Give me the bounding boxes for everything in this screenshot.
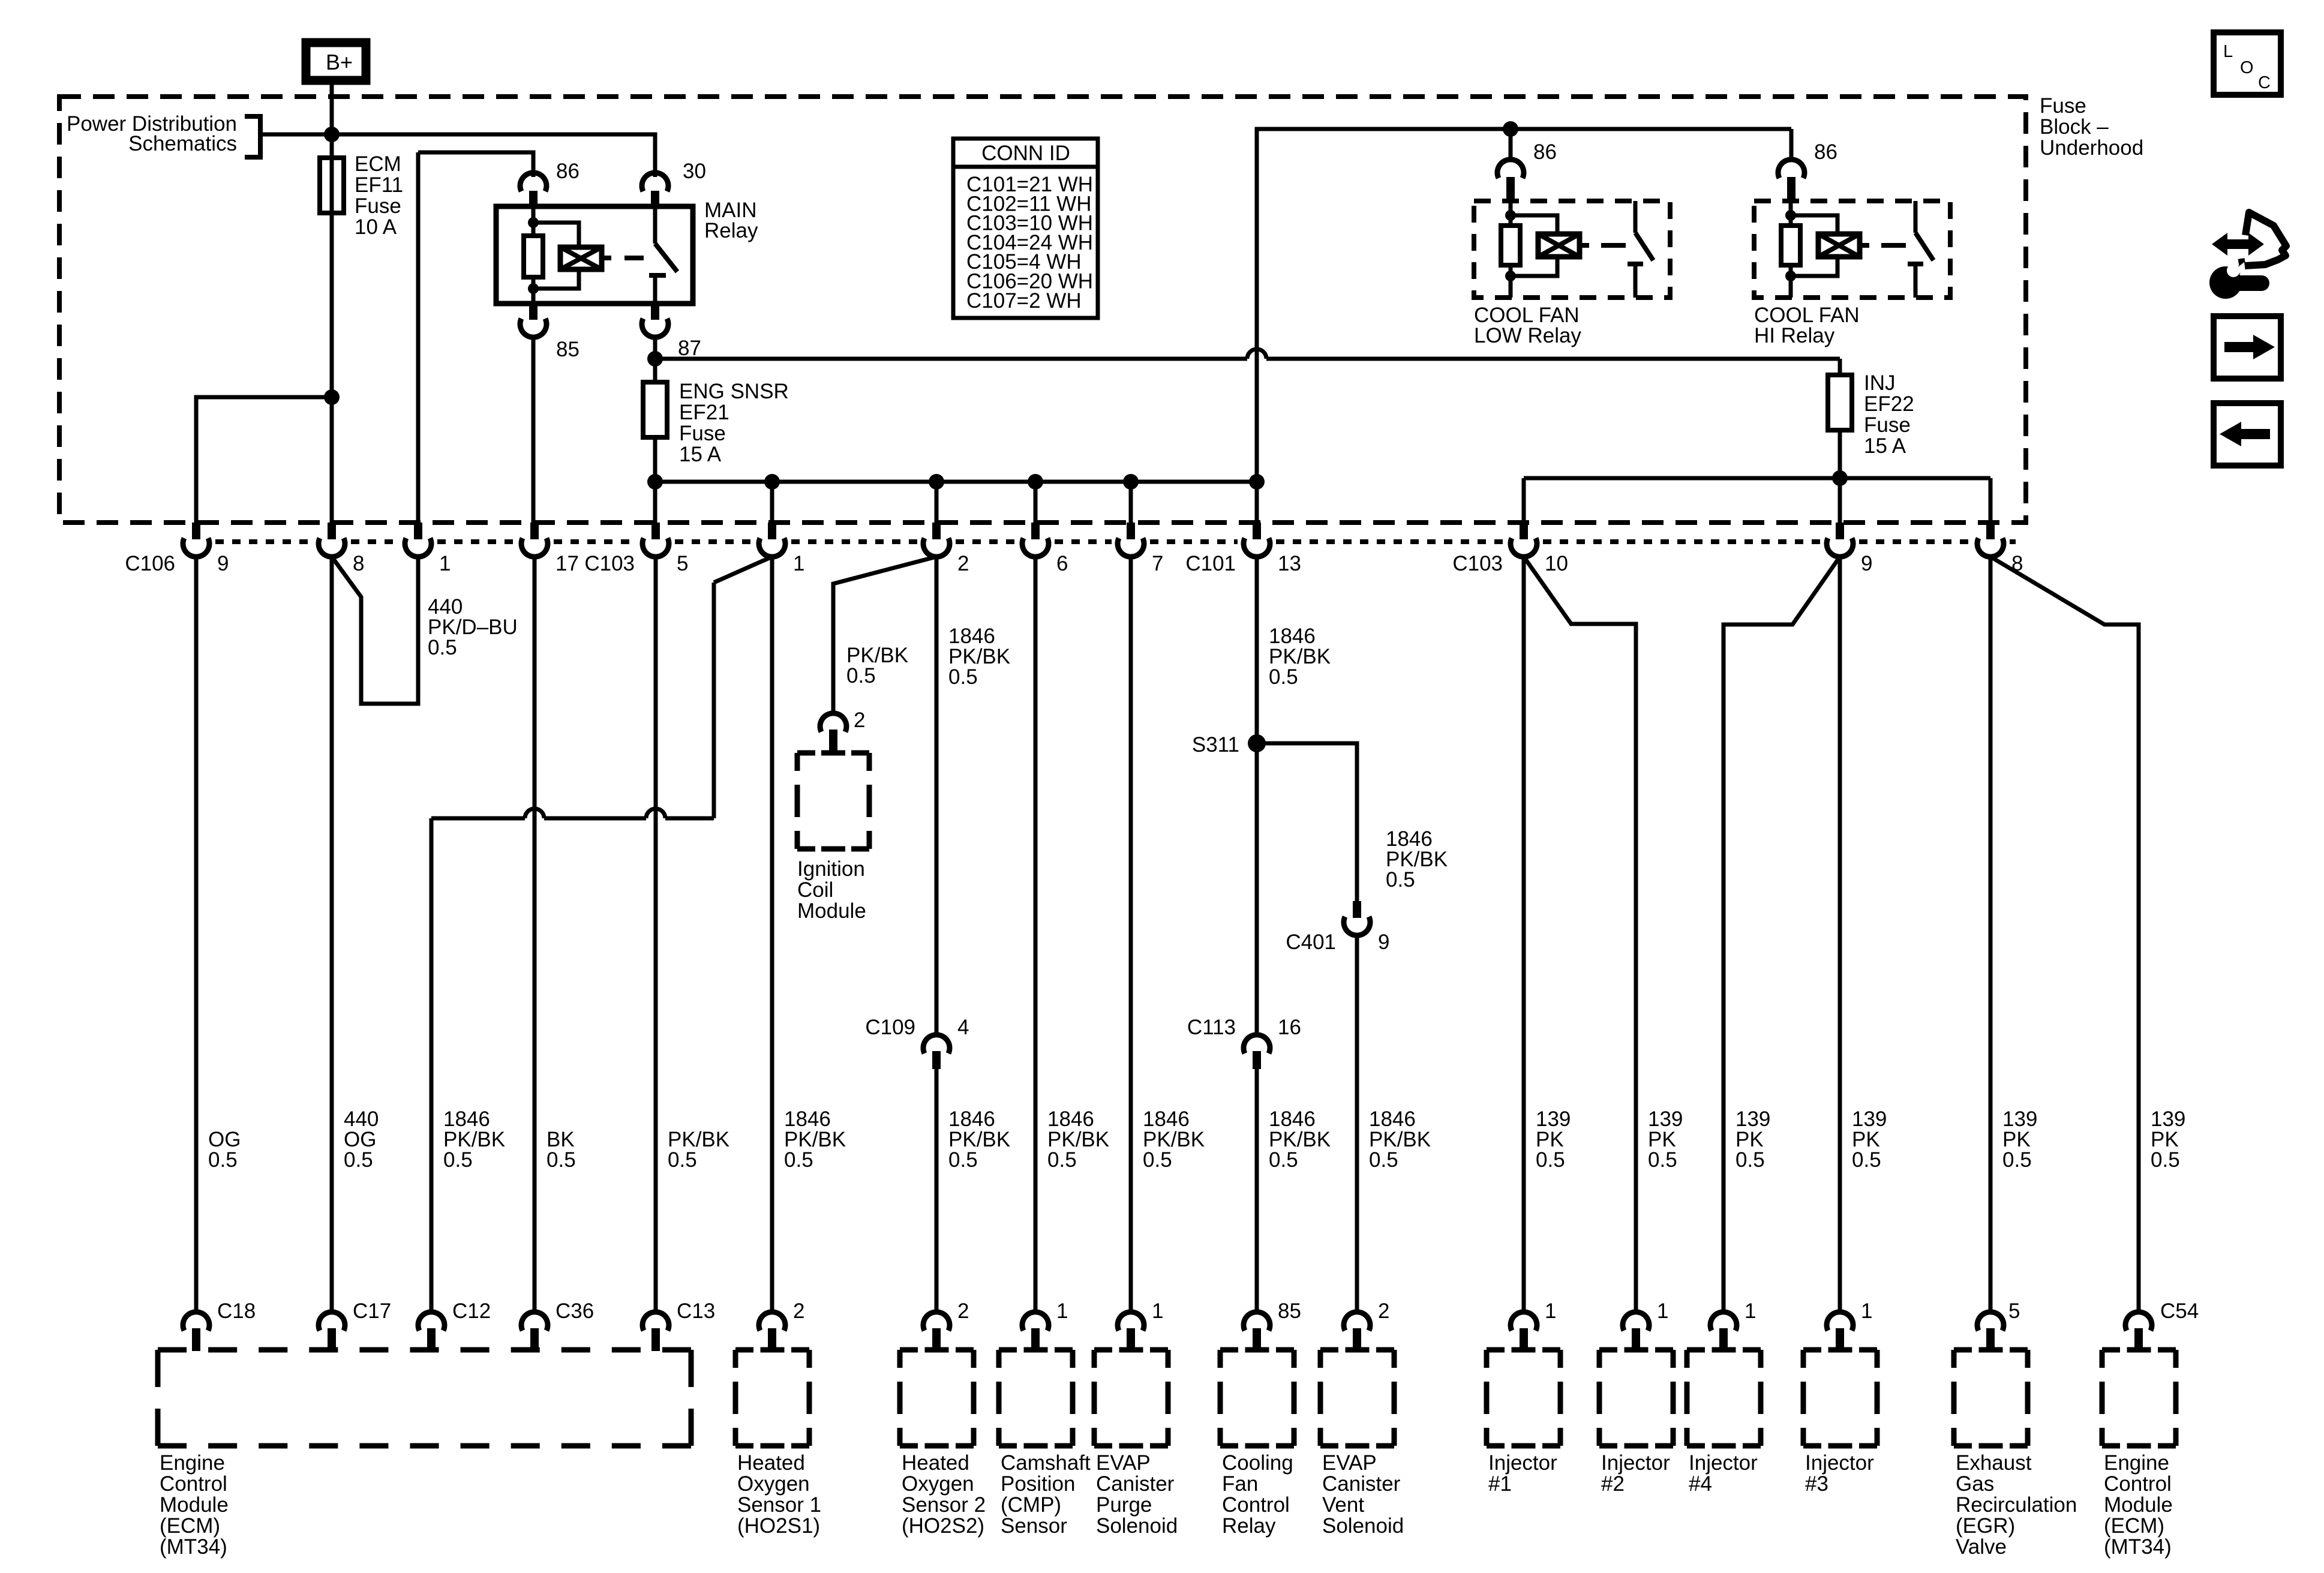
label 1846 PK/BK 0.5 (HO2S2 lower): [948, 1107, 1010, 1172]
svg-text:(ECM): (ECM): [2104, 1514, 2164, 1538]
label bottom 2: [1378, 1299, 1389, 1323]
junction injector bus: [1832, 470, 1848, 486]
label EGR valve: [1956, 1451, 2077, 1559]
label 1846 PK/BK 0.5 (fan relay): [1269, 1107, 1331, 1172]
svg-text:0.5: 0.5: [948, 665, 978, 689]
svg-text:0.5: 0.5: [1143, 1148, 1172, 1172]
svg-text:15 A: 15 A: [1864, 434, 1906, 458]
label pin 10: [1545, 552, 1568, 575]
resistor: [1781, 226, 1800, 265]
wire bus to C103-2: [935, 482, 939, 523]
label 139 PK 0.5 (inj4): [1736, 1107, 1770, 1172]
svg-text:2: 2: [957, 552, 969, 575]
svg-text:0.5: 0.5: [1269, 1148, 1298, 1172]
svg-text:0.5: 0.5: [668, 1148, 697, 1172]
svg-text:85: 85: [1278, 1299, 1301, 1323]
label bottom 1: [1861, 1299, 1872, 1323]
svg-text:0.5: 0.5: [344, 1148, 373, 1172]
icon arrow left: [2214, 403, 2281, 466]
label OG 0.5: [208, 1128, 241, 1172]
coil element: [1538, 234, 1580, 257]
table CONN ID: [953, 139, 1098, 318]
label 1846 PK/BK 0.5 (C12): [443, 1107, 505, 1172]
svg-text:ECM: ECM: [355, 152, 401, 176]
svg-text:(MT34): (MT34): [160, 1535, 227, 1559]
svg-text:CONN ID: CONN ID: [981, 142, 1070, 165]
svg-text:9: 9: [1378, 930, 1389, 954]
label fuse EF11: [355, 152, 403, 239]
connector C113 pin 16: [1244, 1035, 1270, 1069]
label pin 87: [678, 337, 701, 360]
label bottom C12: [452, 1299, 491, 1323]
wire 87 bus: [655, 349, 1840, 359]
svg-text:2: 2: [793, 1299, 804, 1323]
label BK 0.5: [547, 1128, 576, 1172]
svg-text:0.5: 0.5: [784, 1148, 813, 1172]
label fuse EF21: [679, 380, 789, 466]
label pin 86 hi: [1814, 140, 1837, 164]
svg-text:Fuse: Fuse: [679, 422, 726, 445]
label pin 86: [556, 160, 580, 183]
connector bottom 1 at x1726: [1022, 1312, 1049, 1351]
svg-text:0.5: 0.5: [1047, 1148, 1077, 1172]
svg-text:Sensor 2: Sensor 2: [902, 1493, 986, 1517]
wire B+ to bus: [330, 80, 334, 160]
module box HO2S2: [900, 1350, 974, 1446]
relay actuator dash: [624, 256, 644, 260]
svg-text:#1: #1: [1488, 1472, 1512, 1496]
svg-text:Canister: Canister: [1322, 1472, 1401, 1496]
connector bottom 1 at x1885: [1118, 1312, 1144, 1351]
label HO2S1: [737, 1451, 821, 1538]
wire sensor feed bus: [655, 480, 1257, 484]
svg-text:Recirculation: Recirculation: [1956, 1493, 2077, 1517]
wire ENG fuse to C103-5: [653, 482, 657, 523]
svg-text:2: 2: [854, 709, 865, 732]
label bottom C54: [2160, 1299, 2199, 1323]
label EVAP purge: [1096, 1451, 1178, 1538]
label bottom 1: [1744, 1299, 1756, 1323]
connector MAIN relay pin 86: [520, 173, 547, 206]
label C113: [1187, 1016, 1236, 1039]
label CMP: [1001, 1451, 1091, 1538]
svg-text:C18: C18: [217, 1299, 256, 1323]
connector MAIN relay pin 85: [520, 304, 547, 523]
connector C106-1: [405, 523, 431, 558]
wire C106-1 riser: [416, 152, 421, 523]
svg-text:C103: C103: [584, 552, 635, 575]
wire OG 0.5 (C106-9 to ECM C18): [194, 557, 199, 1313]
label 1846 PK/BK 0.5 (EVAP vent): [1369, 1107, 1431, 1172]
svg-text:#2: #2: [1601, 1472, 1625, 1496]
svg-text:C17: C17: [353, 1299, 391, 1323]
svg-text:9: 9: [1861, 552, 1872, 575]
relay MAIN: [496, 206, 693, 304]
svg-text:Control: Control: [160, 1472, 227, 1496]
svg-text:EF11: EF11: [355, 173, 403, 197]
module box Injector 3: [1803, 1350, 1877, 1446]
svg-text:Coil: Coil: [797, 878, 833, 902]
svg-text:0.5: 0.5: [2151, 1148, 2180, 1172]
svg-text:#3: #3: [1805, 1472, 1828, 1496]
svg-text:85: 85: [556, 338, 580, 361]
wire bus to C103-1: [770, 482, 774, 523]
module box EVAP vent: [1320, 1350, 1394, 1446]
label pin 6: [1056, 552, 1068, 575]
svg-text:Solenoid: Solenoid: [1096, 1514, 1178, 1538]
svg-text:Block –: Block –: [2040, 115, 2109, 139]
svg-text:Oxygen: Oxygen: [902, 1472, 974, 1496]
wire 1846 PK/BK 0.5 (C103-2 to C109): [935, 557, 939, 1035]
svg-text:C12: C12: [452, 1299, 491, 1323]
connector bottom 2 at x1287: [759, 1312, 785, 1351]
svg-text:2: 2: [957, 1299, 969, 1323]
actuator dash: [1601, 243, 1626, 248]
svg-text:(HO2S2): (HO2S2): [902, 1514, 984, 1538]
label pin 2: [957, 552, 969, 575]
svg-text:0.5: 0.5: [428, 636, 457, 659]
label 139 PK 0.5 (inj2): [1648, 1107, 1683, 1172]
wire bus to C103-6: [1034, 482, 1038, 523]
wire 1846 PK/BK 0.5 (C103-6 to CMP): [1034, 557, 1038, 1313]
label 1846 PK/BK 0.5 (EVAP purge): [1143, 1107, 1205, 1172]
label C109: [865, 1016, 915, 1039]
wire 139 PK 0.5 (C103-8 to ECM C54): [1990, 557, 2139, 1313]
module box HO2S1: [735, 1350, 809, 1446]
wire 139 PK 0.5 (C103-9 to injector 4): [1724, 557, 1840, 1313]
svg-text:Oxygen: Oxygen: [737, 1472, 810, 1496]
label pin 8: [353, 552, 364, 575]
svg-text:Fuse: Fuse: [355, 194, 401, 218]
junction sensor bus C103-6: [1028, 474, 1043, 490]
svg-text:87: 87: [678, 337, 701, 360]
label pin 85: [556, 338, 580, 361]
label C101: [1185, 552, 1236, 575]
svg-text:Injector: Injector: [1488, 1451, 1557, 1475]
svg-text:ENG SNSR: ENG SNSR: [679, 380, 789, 403]
label pin 5: [677, 552, 688, 575]
svg-text:L: L: [2223, 42, 2233, 61]
power symbol B+: [306, 43, 366, 80]
connector bottom C12 at x719: [418, 1312, 445, 1351]
relay coil element: [560, 247, 602, 269]
module box ECM right: [2102, 1350, 2176, 1446]
svg-text:LOW Relay: LOW Relay: [1474, 324, 1581, 347]
connector bottom 85 at x2095: [1244, 1312, 1270, 1351]
wire 1846 PK/BK 0.5 (C101-13 to S311): [1255, 557, 1259, 739]
wire PK/BK 0.5 (C103-5 to ECM C13): [654, 557, 658, 1313]
connector COOL FAN LOW pin 86: [1497, 129, 1524, 201]
wire C106-9 riser: [196, 397, 332, 523]
wire C106-1 to MAIN relay 86: [418, 152, 533, 173]
svg-text:Fan: Fan: [1222, 1472, 1258, 1496]
wire cool fan relay feed: [1257, 129, 1791, 482]
svg-text:0.5: 0.5: [1369, 1148, 1398, 1172]
svg-text:C36: C36: [556, 1299, 594, 1323]
svg-text:EVAP: EVAP: [1096, 1451, 1151, 1475]
icon LOC box: [2214, 32, 2281, 95]
svg-text:C54: C54: [2160, 1299, 2199, 1323]
label PK/BK 0.5 (ignition coil): [846, 644, 908, 688]
svg-text:1: 1: [1545, 1299, 1556, 1323]
wire 139 PK 0.5 (C103-9 to injector 3): [1838, 557, 1842, 1313]
svg-text:Position: Position: [1001, 1472, 1076, 1496]
label bottom 1: [1056, 1299, 1068, 1323]
actuator dash: [1881, 243, 1906, 248]
label C103b: [1452, 552, 1503, 575]
svg-text:0.5: 0.5: [1536, 1148, 1565, 1172]
module box Cooling fan relay: [1220, 1350, 1294, 1446]
svg-text:30: 30: [683, 160, 706, 183]
svg-text:C106: C106: [125, 552, 175, 575]
wire 1846 PK/BK to ECM C12: [431, 557, 772, 1313]
svg-text:1: 1: [793, 552, 804, 575]
label Cooling fan relay: [1222, 1451, 1293, 1538]
connector C103-7: [1118, 523, 1144, 558]
label 1846 PK/BK 0.5 (CMP): [1047, 1107, 1109, 1172]
connector bottom 1 at x2540: [1511, 1312, 1537, 1351]
switch: [1914, 201, 1918, 233]
svg-text:10 A: 10 A: [355, 215, 397, 239]
svg-text:Valve: Valve: [1956, 1535, 2007, 1559]
relay switch: [653, 206, 657, 244]
label 139 PK 0.5 (inj1): [1536, 1107, 1571, 1172]
svg-text:0.5: 0.5: [1386, 868, 1415, 891]
label bottom C13: [677, 1299, 715, 1323]
svg-text:2: 2: [1378, 1299, 1389, 1323]
svg-text:8: 8: [353, 552, 364, 575]
connector C103-6: [1022, 523, 1049, 558]
svg-text:Ignition: Ignition: [797, 857, 865, 881]
svg-text:Injector: Injector: [1805, 1451, 1874, 1475]
svg-text:EF21: EF21: [679, 401, 729, 424]
svg-text:86: 86: [1533, 140, 1557, 164]
svg-text:Control: Control: [2104, 1472, 2172, 1496]
label Injector 1: [1488, 1451, 1557, 1496]
junction B+ bus: [324, 127, 340, 142]
label pin 17: [556, 552, 579, 575]
wire 440 PK/D-BU jog C106-8 to C106-1: [332, 557, 418, 704]
svg-text:0.5: 0.5: [208, 1148, 238, 1172]
label Ignition Coil Module: [797, 857, 866, 923]
icon arrow right: [2214, 316, 2281, 379]
svg-text:Underhood: Underhood: [2040, 136, 2143, 160]
wire 139 PK 0.5 (C103-10 to injector 1): [1522, 557, 1526, 1313]
wire bus to C103-10: [1522, 478, 1526, 523]
svg-text:Vent: Vent: [1322, 1493, 1364, 1517]
svg-text:86: 86: [556, 160, 580, 183]
relay coil branch: [533, 223, 579, 248]
junction 87 bus: [647, 351, 663, 367]
svg-text:Sensor: Sensor: [1001, 1514, 1067, 1538]
svg-text:4: 4: [957, 1016, 969, 1039]
svg-text:16: 16: [1278, 1016, 1301, 1039]
wire 1846 PK/BK 0.5 (C103-7 to EVAP purge): [1129, 557, 1133, 1313]
svg-text:7: 7: [1152, 552, 1163, 575]
relay COOL FAN LOW: [1474, 201, 1670, 298]
label pin 9b: [1861, 552, 1872, 575]
fuse ECM EF11 10A: [320, 158, 344, 213]
svg-text:C: C: [2258, 73, 2271, 92]
connector ignition coil pin 2: [820, 713, 846, 753]
label bottom 5: [2008, 1299, 2020, 1323]
splice S311: [1248, 734, 1266, 752]
relay coil vertical: [1789, 201, 1793, 298]
connector bottom 5 at x3318: [1977, 1312, 2004, 1351]
svg-text:C109: C109: [865, 1016, 915, 1039]
wire 1846 PK/BK 0.5 (C103-1 to HO2S1): [770, 557, 774, 1313]
label C103: [584, 552, 635, 575]
label Injector 2: [1601, 1451, 1670, 1496]
label bottom 2: [957, 1299, 969, 1323]
label 1846 PK/BK 0.5 (C401): [1386, 827, 1448, 891]
svg-text:0.5: 0.5: [948, 1148, 978, 1172]
label pin 4: [957, 1016, 969, 1039]
coil branch: [1511, 215, 1557, 235]
module box Engine Control Module left: [158, 1350, 691, 1446]
svg-text:O: O: [2240, 58, 2254, 77]
connector row dotted line: [215, 539, 2016, 544]
svg-text:0.5: 0.5: [1852, 1148, 1881, 1172]
svg-text:10: 10: [1545, 552, 1568, 575]
connector bottom 1 at x2727: [1623, 1312, 1649, 1351]
connector MAIN relay pin 87: [642, 304, 668, 360]
svg-text:HI Relay: HI Relay: [1754, 324, 1835, 347]
svg-text:5: 5: [677, 552, 688, 575]
label Power Distribution Schematics: [67, 112, 260, 157]
label pin 13: [1278, 552, 1301, 575]
svg-text:(ECM): (ECM): [160, 1514, 220, 1538]
svg-text:Relay: Relay: [704, 219, 758, 242]
label pin 9: [217, 552, 229, 575]
svg-text:5: 5: [2008, 1299, 2020, 1323]
connector bottom C54 at x3565: [2125, 1312, 2152, 1351]
label 440 OG 0.5: [344, 1107, 379, 1172]
svg-text:EF22: EF22: [1864, 392, 1914, 416]
svg-text:Fuse: Fuse: [1864, 413, 1911, 437]
svg-text:Heated: Heated: [902, 1451, 969, 1475]
connector bottom 1 at x2873: [1710, 1312, 1737, 1351]
wire S311 to C113: [1255, 748, 1259, 1035]
label pin 1: [439, 552, 451, 575]
label pin 9 C401: [1378, 930, 1389, 954]
wire bus to C101-13: [1255, 482, 1259, 523]
svg-text:INJ: INJ: [1864, 371, 1896, 395]
label bottom C17: [353, 1299, 391, 1323]
connector C103-9: [1827, 523, 1853, 558]
relay coil vertical: [1509, 201, 1513, 298]
svg-text:Purge: Purge: [1096, 1493, 1152, 1517]
connector C109 pin 4: [923, 1035, 950, 1069]
connector C103-2: [923, 523, 950, 558]
svg-text:15 A: 15 A: [679, 443, 722, 466]
fuse INJ EF22 15A: [1828, 359, 1852, 523]
connector C401 pin 9: [1344, 901, 1370, 935]
svg-text:Camshaft: Camshaft: [1001, 1451, 1091, 1475]
wire 440 OG 0.5 (C106-8 to ECM C17): [330, 557, 334, 1313]
relay COOL FAN HI: [1754, 201, 1950, 298]
connector COOL FAN HI pin 86: [1778, 129, 1804, 201]
wire BK 0.5 (C106-17 to ECM C36): [533, 557, 537, 1313]
label bottom 1: [1657, 1299, 1668, 1323]
switch: [1634, 201, 1638, 233]
wire bus to C103-7: [1129, 482, 1133, 523]
connector C103-8: [1977, 523, 2004, 558]
label MAIN Relay: [704, 199, 758, 242]
module box EGR valve: [1954, 1350, 2028, 1446]
svg-text:Exhaust: Exhaust: [1956, 1451, 2032, 1475]
svg-text:0.5: 0.5: [846, 664, 876, 688]
svg-text:Gas: Gas: [1956, 1472, 1994, 1496]
module box Injector 1: [1487, 1350, 1560, 1446]
module box CMP: [999, 1350, 1073, 1446]
label 1846 PK/BK 0.5 (S311 upper): [1269, 625, 1331, 689]
module box Ignition Coil Module: [797, 753, 869, 849]
wire PK/BK 0.5 to ignition coil: [833, 557, 936, 714]
resistor in MAIN relay: [524, 236, 543, 277]
label PK/BK 0.5 (C13): [668, 1128, 729, 1172]
svg-text:0.5: 0.5: [443, 1148, 473, 1172]
connector bottom C18 at x327: [183, 1312, 209, 1351]
label pin 7: [1152, 552, 1163, 575]
label Fuse Block - Underhood: [2040, 94, 2143, 160]
svg-text:17: 17: [556, 552, 579, 575]
label 139 PK 0.5 (inj3): [1852, 1107, 1887, 1172]
wire EF11 to C106-8: [330, 213, 334, 523]
svg-text:0.5: 0.5: [1648, 1148, 1677, 1172]
label pin 16: [1278, 1016, 1301, 1039]
label pin 8b: [2011, 552, 2023, 575]
svg-text:1: 1: [1861, 1299, 1872, 1323]
svg-text:1: 1: [1744, 1299, 1756, 1323]
svg-text:(HO2S1): (HO2S1): [737, 1514, 820, 1538]
svg-text:Canister: Canister: [1096, 1472, 1175, 1496]
svg-text:0.5: 0.5: [1269, 665, 1298, 689]
svg-text:C13: C13: [677, 1299, 715, 1323]
module box EVAP purge: [1094, 1350, 1168, 1446]
label bottom C18: [217, 1299, 256, 1323]
module box Injector 4: [1687, 1350, 1761, 1446]
connector C106-17: [521, 523, 548, 558]
wire bus to C103-8: [1989, 478, 1993, 523]
label ECM right: [2104, 1451, 2173, 1559]
wire S311 branch to C401: [1257, 743, 1357, 901]
connector bottom 2 at x1561: [923, 1312, 950, 1351]
svg-text:0.5: 0.5: [1736, 1148, 1765, 1172]
label pin 30: [683, 160, 706, 183]
fuse block underhood outline: [59, 97, 2026, 523]
label bottom 1: [1545, 1299, 1556, 1323]
svg-text:Engine: Engine: [2104, 1451, 2169, 1475]
svg-text:86: 86: [1814, 140, 1837, 164]
svg-text:Module: Module: [2104, 1493, 2173, 1517]
svg-text:13: 13: [1278, 552, 1301, 575]
icon service vehicle: [2209, 212, 2286, 299]
label ECM left: [160, 1451, 229, 1559]
junction sensor bus C101-13: [1249, 474, 1265, 490]
svg-text:1: 1: [1657, 1299, 1668, 1323]
label 139 PK 0.5 (EGR): [2002, 1107, 2037, 1172]
svg-text:Fuse: Fuse: [2040, 94, 2086, 118]
label pin 1b: [793, 552, 804, 575]
label fuse EF22: [1864, 371, 1914, 458]
svg-text:(CMP): (CMP): [1001, 1493, 1061, 1517]
connector C106-8: [319, 523, 345, 558]
label 1846 PK/BK 0.5 (HO2S2 upper): [948, 625, 1010, 689]
svg-text:Module: Module: [797, 899, 866, 923]
junction sensor bus C103-7: [1123, 474, 1139, 490]
junction sensor bus C103-1: [764, 474, 780, 490]
